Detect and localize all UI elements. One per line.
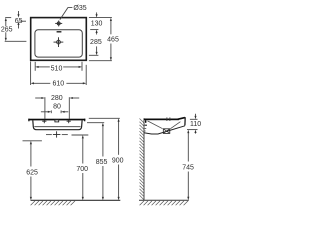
svg-text:900: 900 [112,157,124,164]
svg-text:510: 510 [51,66,63,73]
svg-text:130: 130 [91,21,103,28]
svg-text:465: 465 [107,36,119,43]
svg-text:280: 280 [51,95,63,102]
svg-text:Ø35: Ø35 [73,5,86,12]
svg-text:80: 80 [53,103,61,110]
svg-text:65: 65 [15,18,23,25]
svg-text:110: 110 [190,121,201,128]
svg-text:625: 625 [26,169,38,176]
svg-text:265: 265 [1,26,13,33]
svg-text:285: 285 [90,39,102,46]
svg-text:700: 700 [76,166,88,173]
svg-text:855: 855 [96,159,108,166]
svg-text:610: 610 [52,81,64,88]
svg-text:745: 745 [182,164,194,171]
